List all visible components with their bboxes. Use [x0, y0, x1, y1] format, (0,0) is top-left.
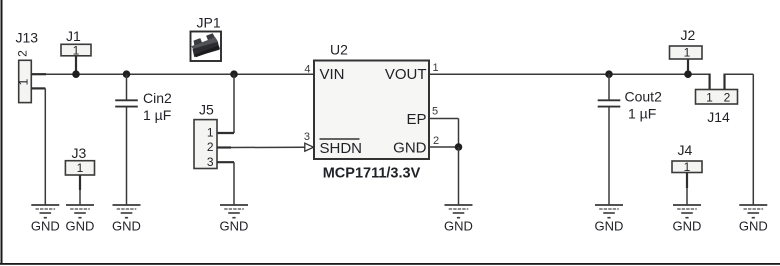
connector J4: [672, 142, 702, 205]
junction J5-drop/rail: [230, 70, 238, 78]
U2 pin number 2: [433, 135, 439, 147]
junction EP/GND: [455, 143, 463, 151]
ground under J13: [31, 205, 60, 234]
svg-text:1: 1: [77, 161, 84, 175]
junction Cin2/rail: [123, 70, 131, 78]
svg-text:3: 3: [304, 131, 310, 143]
wire J14 pin2 up and over to ground: [724, 74, 754, 206]
jumper JP1: [189, 15, 221, 62]
svg-text:1: 1: [684, 160, 691, 174]
wire junction down to ground: [458, 147, 460, 205]
svg-text:EP: EP: [406, 111, 426, 128]
op-amp U2 MCP1711: [314, 42, 429, 182]
svg-text:GND: GND: [66, 219, 95, 234]
svg-text:1: 1: [433, 62, 439, 74]
svg-text:J2: J2: [681, 27, 696, 43]
svg-text:GND: GND: [673, 219, 702, 234]
svg-text:J3: J3: [72, 145, 87, 161]
U2 pin number 3: [304, 131, 310, 143]
svg-text:1: 1: [73, 43, 80, 57]
svg-text:2: 2: [207, 140, 214, 154]
junction Cout2/rail: [605, 70, 613, 78]
ground under J5: [220, 205, 249, 234]
ground under U2: [444, 205, 473, 234]
U2 pin number 4: [304, 64, 310, 76]
wire rail down to J5 pin1: [217, 74, 234, 133]
svg-text:1: 1: [706, 90, 713, 104]
wire J13 pin1 down to ground: [44, 88, 46, 205]
U2 SHDN input triangle: [305, 143, 314, 151]
svg-text:Cout2: Cout2: [625, 89, 663, 105]
wire J5 pin3 to ground: [217, 162, 234, 205]
ground under Cin2: [112, 205, 141, 234]
svg-text:GND: GND: [444, 219, 473, 234]
connector J2: [670, 27, 703, 74]
junction J1/rail: [72, 70, 80, 78]
svg-text:1 µF: 1 µF: [143, 107, 171, 123]
U2 pin number 5: [432, 106, 438, 118]
svg-text:2: 2: [16, 50, 30, 57]
svg-text:J4: J4: [678, 142, 693, 158]
ground under Cout2: [595, 205, 624, 234]
wire J5 pin2 to SHDN: [217, 146, 305, 148]
svg-text:4: 4: [304, 64, 310, 76]
wire J13 pin2 stub to rail: [31, 73, 46, 75]
U2 pin number 1: [433, 62, 439, 74]
svg-text:JP1: JP1: [197, 15, 221, 31]
svg-text:J14: J14: [707, 109, 730, 125]
wire J13 pin1 stub: [31, 87, 45, 89]
svg-text:GND: GND: [393, 140, 427, 157]
svg-text:GND: GND: [31, 219, 60, 234]
svg-text:1 µF: 1 µF: [628, 106, 656, 122]
svg-text:GND: GND: [220, 219, 249, 234]
wire rail drop into J14 pin1: [708, 74, 710, 90]
connector J1: [61, 28, 91, 74]
wire U2 GND pin to junction: [429, 146, 459, 148]
ground under J3: [66, 205, 95, 234]
junction J2/rail: [684, 70, 692, 78]
svg-text:MCP1711/3.3V: MCP1711/3.3V: [323, 166, 421, 182]
svg-text:5: 5: [432, 106, 438, 118]
svg-text:1: 1: [17, 78, 31, 85]
svg-text:GND: GND: [112, 219, 141, 234]
connector J3: [65, 145, 94, 205]
svg-text:1: 1: [684, 46, 691, 60]
svg-text:J13: J13: [16, 30, 39, 46]
svg-text:GND: GND: [739, 219, 768, 234]
svg-text:SHDN: SHDN: [320, 140, 363, 157]
connector J5: [194, 102, 217, 169]
capacitor Cin2: [115, 74, 172, 205]
svg-text:2: 2: [433, 135, 439, 147]
wire main input rail: [46, 73, 314, 75]
capacitor Cout2: [598, 74, 662, 205]
svg-text:J1: J1: [66, 28, 81, 44]
wire EP to junction: [429, 119, 459, 148]
svg-text:GND: GND: [595, 219, 624, 234]
ground far right: [739, 205, 768, 234]
connector J14: [696, 90, 738, 126]
svg-text:J5: J5: [199, 102, 214, 118]
wire VOUT rail: [429, 73, 710, 75]
svg-text:3: 3: [207, 155, 214, 169]
connector J13: [16, 30, 39, 103]
svg-text:1: 1: [207, 126, 214, 140]
svg-text:VOUT: VOUT: [385, 66, 427, 83]
svg-text:VIN: VIN: [320, 66, 345, 83]
svg-text:Cin2: Cin2: [143, 90, 172, 106]
svg-text:2: 2: [724, 90, 731, 104]
ground under J4: [673, 205, 702, 234]
svg-text:U2: U2: [330, 42, 348, 58]
